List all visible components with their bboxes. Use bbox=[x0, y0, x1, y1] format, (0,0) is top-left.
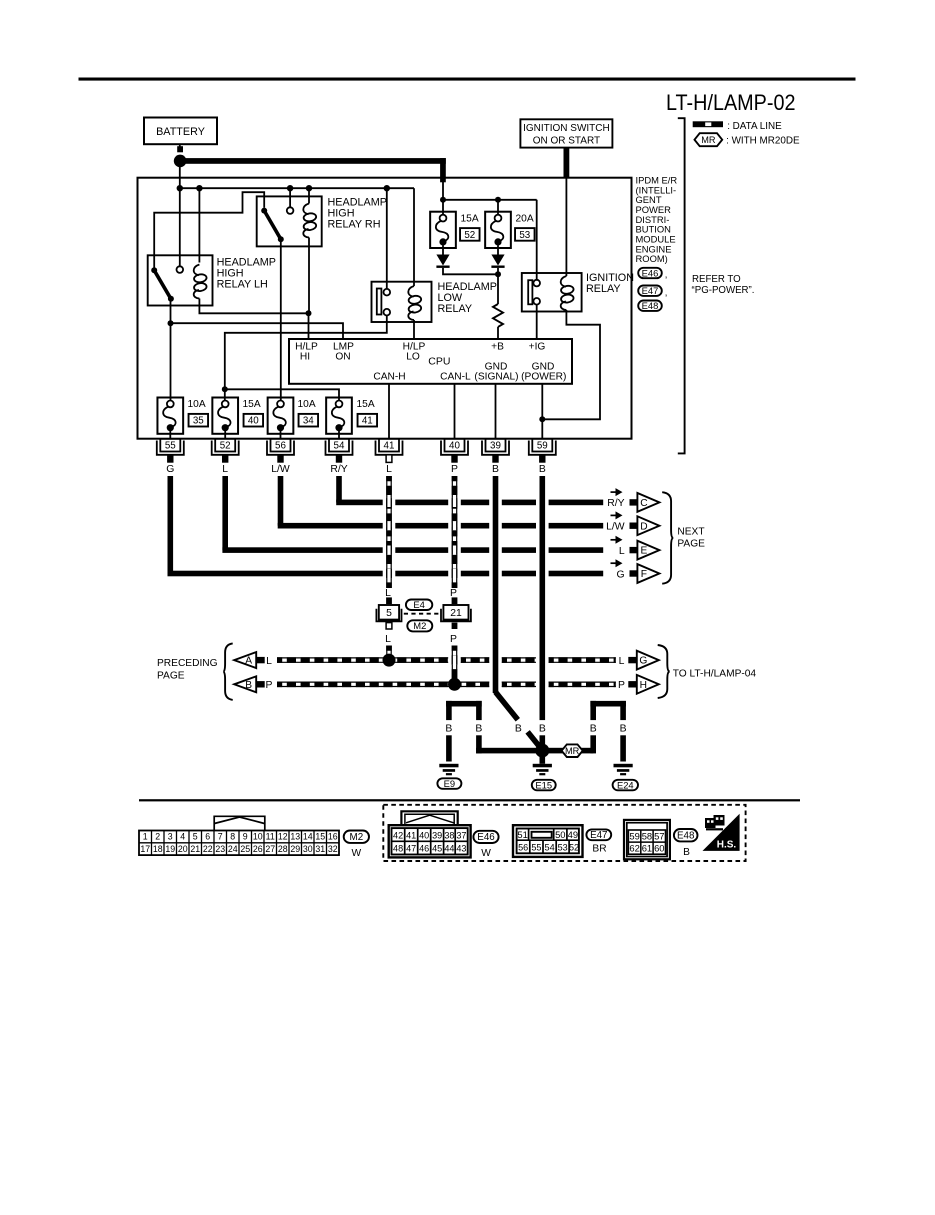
row B junction dot bbox=[448, 678, 461, 691]
thick wire R/Y to arrow C bbox=[336, 476, 603, 505]
svg-text:57: 57 bbox=[654, 830, 664, 841]
relay RH pivot dot bbox=[261, 208, 267, 214]
ignition relay bottom contact bbox=[533, 298, 540, 305]
svg-text:20A: 20A bbox=[516, 214, 534, 225]
svg-text:34: 34 bbox=[303, 416, 314, 427]
svg-text:58: 58 bbox=[642, 830, 652, 841]
svg-text:R/Y: R/Y bbox=[607, 498, 624, 509]
svg-text:4: 4 bbox=[180, 832, 185, 842]
wire fuse 52 to diode bbox=[442, 245, 444, 254]
svg-text:R/Y: R/Y bbox=[330, 464, 347, 475]
svg-text:B: B bbox=[475, 724, 482, 735]
pin 59 bbox=[529, 439, 556, 463]
svg-text:3: 3 bbox=[168, 832, 173, 842]
low relay bottom contact bbox=[384, 309, 391, 316]
GND POWER junction dot bbox=[539, 416, 545, 422]
wire to ignition relay contact bbox=[536, 200, 538, 280]
relay RH blade bbox=[264, 211, 281, 240]
svg-text:ON OR START: ON OR START bbox=[533, 136, 600, 147]
headlamp high relay RH box bbox=[257, 196, 322, 246]
svg-text:BATTERY: BATTERY bbox=[156, 126, 205, 138]
E24 oval bbox=[613, 779, 638, 790]
wire CPU CAN-L to pin 40 bbox=[454, 384, 456, 439]
svg-text:59: 59 bbox=[537, 441, 548, 452]
diode junction dot bbox=[495, 271, 501, 277]
svg-text:H/LP: H/LP bbox=[295, 341, 318, 352]
stub after A bbox=[256, 657, 265, 663]
svg-text:41: 41 bbox=[384, 441, 395, 452]
stub before G bbox=[628, 657, 637, 663]
svg-text:49: 49 bbox=[568, 829, 578, 840]
resistor bbox=[493, 304, 503, 327]
headlamp high relay LH box bbox=[148, 255, 213, 305]
pin 41 bbox=[376, 439, 403, 463]
wire relay LH output to fuse 35 bbox=[170, 299, 172, 401]
svg-text:54: 54 bbox=[334, 441, 345, 452]
wire fuse 53 to diode bbox=[497, 245, 499, 254]
E9 ground loop wire bbox=[446, 701, 482, 762]
preceding page brace bbox=[223, 643, 233, 700]
pin 55 bbox=[157, 439, 184, 463]
relay LH pivot dot bbox=[151, 267, 157, 273]
svg-text:28: 28 bbox=[278, 844, 288, 854]
svg-text:B: B bbox=[539, 464, 546, 475]
svg-text:MR: MR bbox=[701, 135, 716, 145]
wire CPU GND POWER to pin 59 bbox=[541, 384, 543, 439]
arrow triangle F bbox=[637, 564, 659, 583]
svg-text:HI: HI bbox=[300, 352, 310, 363]
stub above connector 21 bbox=[452, 597, 458, 604]
svg-text:51: 51 bbox=[517, 829, 527, 840]
diode 52 bbox=[436, 255, 449, 268]
svg-text:1: 1 bbox=[143, 832, 148, 842]
svg-text:C: C bbox=[640, 498, 647, 509]
B wire from pin 59 bbox=[540, 476, 546, 720]
top rule bbox=[79, 78, 856, 81]
svg-text:LT-H/LAMP-02: LT-H/LAMP-02 bbox=[666, 90, 796, 115]
preceding page text bbox=[157, 658, 218, 681]
E48 connector drawing bbox=[624, 820, 670, 859]
svg-text:E47: E47 bbox=[590, 830, 607, 841]
data line row A bbox=[277, 658, 616, 662]
arrow D row decorations bbox=[606, 511, 638, 532]
stub above connector 5 bbox=[386, 597, 392, 604]
fuse bus junction dot bbox=[222, 386, 228, 392]
svg-text:41: 41 bbox=[362, 416, 373, 427]
svg-text:M2: M2 bbox=[350, 832, 364, 843]
next page brace bbox=[662, 492, 673, 584]
relay LH output dot bbox=[168, 296, 174, 302]
thick wire G to arrow F bbox=[168, 476, 604, 576]
svg-text:GND: GND bbox=[532, 361, 555, 372]
ground bus wire bbox=[476, 748, 593, 754]
svg-text:52: 52 bbox=[464, 230, 475, 241]
svg-text:53: 53 bbox=[558, 842, 568, 852]
connector ref E4 bbox=[406, 599, 432, 610]
svg-text:,: , bbox=[665, 269, 668, 280]
svg-text:E15: E15 bbox=[535, 779, 552, 790]
relay LH label bbox=[217, 257, 276, 291]
svg-text:L: L bbox=[266, 656, 272, 667]
svg-text:54: 54 bbox=[545, 842, 555, 852]
svg-text:11: 11 bbox=[266, 832, 275, 842]
svg-text:E9: E9 bbox=[444, 778, 455, 789]
battery junction dot bbox=[174, 155, 187, 168]
wire junction to E15 ground bbox=[540, 751, 546, 764]
svg-text:6: 6 bbox=[205, 832, 210, 842]
svg-text:5: 5 bbox=[386, 608, 392, 619]
svg-text:30: 30 bbox=[303, 844, 313, 854]
wire low relay output to fuse bus bbox=[225, 316, 387, 390]
svg-text:B: B bbox=[515, 724, 522, 735]
MR badge ground bbox=[562, 744, 583, 757]
svg-text:52: 52 bbox=[220, 441, 231, 452]
svg-text:: DATA LINE: : DATA LINE bbox=[727, 121, 782, 132]
pin 40 bbox=[441, 439, 468, 463]
wire bus to relay LH coil bbox=[198, 188, 200, 262]
svg-text:GND: GND bbox=[485, 361, 508, 372]
wire CPU GND SIGNAL to pin 39 bbox=[495, 384, 497, 439]
svg-text:H/LP: H/LP bbox=[403, 341, 426, 352]
CPU pin labels bbox=[295, 341, 566, 382]
wires fuses to pins bbox=[169, 431, 171, 439]
svg-text:RELAY LH: RELAY LH bbox=[217, 279, 268, 291]
svg-text:REFER TO: REFER TO bbox=[692, 274, 741, 285]
thick wire L/W to arrow D bbox=[278, 476, 603, 529]
svg-text:PAGE: PAGE bbox=[157, 670, 185, 681]
svg-text:40: 40 bbox=[248, 416, 259, 427]
wire CPU CAN-H to pin 41 bbox=[388, 384, 390, 439]
svg-text:18: 18 bbox=[153, 844, 163, 854]
ground symbol E24 bbox=[614, 764, 633, 776]
H.S. badge bbox=[703, 814, 740, 851]
svg-text:CPU: CPU bbox=[428, 355, 450, 367]
svg-text:42: 42 bbox=[393, 830, 403, 840]
svg-text:P: P bbox=[451, 464, 458, 475]
pin 54 bbox=[326, 439, 353, 463]
svg-text:20: 20 bbox=[178, 844, 188, 854]
inline connector pin 21 bbox=[441, 605, 471, 621]
triangle A bbox=[234, 652, 256, 668]
ground junction dot bbox=[535, 744, 549, 758]
wire diode junction down bbox=[497, 268, 499, 304]
ignition relay label bbox=[586, 272, 634, 295]
svg-text:LMP: LMP bbox=[333, 341, 354, 352]
arrow triangle C bbox=[637, 493, 659, 512]
IPDM E/R module box bbox=[138, 178, 632, 439]
pin 39 bbox=[482, 439, 509, 463]
fuse 15A 40 bbox=[212, 398, 238, 434]
wire resistor to CPU +B bbox=[497, 327, 499, 339]
wire color labels bbox=[166, 464, 546, 475]
svg-text:7: 7 bbox=[218, 832, 223, 842]
E48 oval bbox=[674, 829, 698, 842]
svg-text:E46: E46 bbox=[642, 267, 659, 278]
svg-text:50: 50 bbox=[555, 829, 565, 840]
stub after B bbox=[256, 681, 265, 687]
svg-text:26: 26 bbox=[253, 844, 263, 854]
low relay coil bbox=[408, 286, 422, 320]
triangle H bbox=[637, 675, 659, 694]
B wire from pin 39 bbox=[493, 476, 499, 693]
relay LH fixed contact bbox=[177, 266, 184, 273]
svg-text:P: P bbox=[450, 634, 457, 645]
wire fuse link 52-53 bbox=[443, 199, 537, 201]
svg-text:38: 38 bbox=[444, 830, 454, 840]
connector link dashes bbox=[404, 613, 441, 615]
battery box bbox=[144, 118, 217, 145]
relay LH coil bbox=[194, 265, 208, 299]
svg-text:“PG-POWER”.: “PG-POWER”. bbox=[692, 285, 755, 296]
svg-text:L: L bbox=[386, 464, 392, 475]
ignition relay coil bbox=[561, 276, 575, 310]
svg-text:31: 31 bbox=[315, 844, 325, 854]
triangle B bbox=[234, 676, 256, 692]
CPU box bbox=[289, 339, 572, 384]
svg-text:+B: +B bbox=[491, 341, 504, 352]
svg-text:B: B bbox=[492, 464, 499, 475]
wire diode 52 to +B net bbox=[443, 268, 498, 274]
battery feed dashes bbox=[177, 146, 183, 152]
svg-text:37: 37 bbox=[456, 830, 466, 840]
fuse 15A 41 bbox=[326, 398, 352, 434]
arrow E row decorations bbox=[611, 536, 639, 557]
svg-text:23: 23 bbox=[215, 844, 225, 854]
junction dot LMP ON tap bbox=[168, 320, 174, 326]
svg-text:5: 5 bbox=[193, 832, 198, 842]
svg-text:: WITH MR20DE: : WITH MR20DE bbox=[726, 135, 800, 146]
svg-text:25: 25 bbox=[240, 844, 250, 854]
wire relay RH output to fuse 34 bbox=[280, 239, 282, 400]
low relay top contact bbox=[384, 289, 391, 296]
svg-text:53: 53 bbox=[519, 230, 530, 241]
thick ignition switch wire bbox=[564, 148, 570, 179]
svg-text:47: 47 bbox=[406, 844, 416, 854]
svg-text:61: 61 bbox=[642, 843, 652, 854]
E9 oval bbox=[437, 778, 461, 789]
svg-text:29: 29 bbox=[290, 844, 300, 854]
fuse top junction dot 53 bbox=[495, 197, 501, 203]
fuse 10A 35 bbox=[157, 398, 183, 434]
wire ignition relay coil to GND POWER net bbox=[542, 310, 600, 419]
E24 ground loop wire bbox=[590, 701, 626, 762]
fuse 20A 53 bbox=[485, 212, 511, 248]
svg-text:44: 44 bbox=[444, 844, 454, 854]
svg-text:E46: E46 bbox=[477, 832, 495, 843]
svg-text:10A: 10A bbox=[298, 399, 316, 410]
wire bus to low relay contact bbox=[386, 188, 388, 289]
headlamp low relay box bbox=[372, 282, 432, 322]
ground symbol E9 bbox=[439, 764, 458, 776]
svg-text:BR: BR bbox=[592, 844, 606, 855]
B wire labels ground section bbox=[445, 724, 626, 735]
arrow F row decorations bbox=[611, 559, 639, 580]
data line P from pin 40 bbox=[451, 476, 453, 588]
svg-text:21: 21 bbox=[190, 844, 200, 854]
svg-text:8: 8 bbox=[230, 832, 235, 842]
svg-text:43: 43 bbox=[456, 844, 466, 854]
svg-text:10: 10 bbox=[253, 832, 263, 842]
wire relay RH coil down bbox=[308, 238, 310, 314]
inline connector pin 5 bbox=[376, 605, 401, 621]
wire to fuse 53 bbox=[497, 200, 499, 215]
svg-text:41: 41 bbox=[406, 830, 416, 840]
fuse top junction dot 52 bbox=[440, 197, 446, 203]
svg-text:10A: 10A bbox=[188, 399, 206, 410]
data line row B bbox=[277, 682, 616, 686]
wire bus to relay LH contact bbox=[179, 188, 181, 266]
diode 53 bbox=[491, 255, 504, 268]
svg-text:40: 40 bbox=[419, 830, 429, 840]
fuse 10A 34 bbox=[268, 398, 294, 434]
fuse 15A 52 bbox=[430, 212, 456, 248]
low relay label bbox=[438, 281, 497, 315]
ignition relay armature bar bbox=[528, 280, 532, 304]
svg-text:P: P bbox=[618, 680, 625, 691]
wire bus to relay RH contact bbox=[289, 188, 291, 207]
svg-text:B: B bbox=[539, 724, 546, 735]
svg-text:12: 12 bbox=[278, 832, 288, 842]
data line L to row A bbox=[386, 646, 388, 658]
svg-text:RELAY RH: RELAY RH bbox=[328, 219, 381, 231]
coil junction dot bbox=[306, 310, 312, 316]
svg-text:60: 60 bbox=[654, 843, 664, 854]
svg-text:H: H bbox=[640, 680, 647, 691]
wire battery thick to fuse 52 bbox=[442, 182, 444, 215]
svg-text:24: 24 bbox=[228, 844, 238, 854]
svg-text:E48: E48 bbox=[642, 300, 659, 311]
low relay armature bar bbox=[377, 289, 382, 315]
battery bus wire bbox=[179, 144, 181, 150]
svg-text:E24: E24 bbox=[617, 779, 634, 790]
svg-text:A: A bbox=[245, 656, 252, 667]
legend MR badge bbox=[695, 133, 723, 146]
wire bus to relay RH coil bbox=[308, 188, 310, 203]
E47 oval bbox=[586, 829, 611, 841]
svg-text:14: 14 bbox=[303, 832, 313, 842]
IPDM label text bbox=[636, 174, 678, 264]
wire coils to CPU H/LP HI bbox=[308, 313, 310, 339]
svg-text:W: W bbox=[351, 848, 361, 859]
svg-text:+IG: +IG bbox=[529, 341, 546, 352]
svg-text:15A: 15A bbox=[243, 399, 261, 410]
bottom separator line bbox=[139, 799, 800, 801]
stub below connector 21 bbox=[452, 623, 458, 629]
svg-text:15: 15 bbox=[315, 832, 325, 842]
svg-text:CAN-L: CAN-L bbox=[440, 372, 471, 383]
svg-text:E4: E4 bbox=[413, 599, 424, 610]
svg-text:E47: E47 bbox=[642, 285, 659, 296]
svg-text:52: 52 bbox=[569, 842, 579, 852]
data line crossing windows bbox=[387, 498, 457, 665]
M2 connector roof bbox=[214, 816, 265, 830]
svg-text:40: 40 bbox=[449, 441, 460, 452]
connector ref M2 bbox=[407, 620, 432, 631]
svg-text:22: 22 bbox=[203, 844, 213, 854]
svg-text:ROOM): ROOM) bbox=[636, 253, 668, 264]
svg-text:13: 13 bbox=[290, 832, 300, 842]
svg-text:16: 16 bbox=[328, 832, 338, 842]
svg-text:LO: LO bbox=[406, 352, 420, 363]
ignition relay top contact bbox=[533, 280, 540, 287]
svg-text:E: E bbox=[641, 546, 648, 557]
E47 connector drawing bbox=[513, 825, 583, 857]
svg-text:E48: E48 bbox=[677, 831, 695, 842]
svg-text:TO LT-H/LAMP-04: TO LT-H/LAMP-04 bbox=[673, 668, 757, 679]
svg-text:,: , bbox=[665, 286, 668, 297]
svg-text:2: 2 bbox=[155, 832, 160, 842]
svg-text:19: 19 bbox=[165, 844, 175, 854]
relay RH output dot bbox=[278, 236, 284, 242]
svg-text:L: L bbox=[619, 656, 625, 667]
wire low relay coil to CPU H/LP LO bbox=[413, 320, 415, 339]
svg-text:MR: MR bbox=[565, 746, 580, 756]
harness detail dashed box bbox=[383, 805, 745, 861]
svg-text:27: 27 bbox=[265, 844, 275, 854]
svg-text:G: G bbox=[166, 464, 174, 475]
stub below connector 5 bbox=[386, 623, 392, 629]
svg-text:L: L bbox=[222, 464, 228, 475]
svg-text:48: 48 bbox=[393, 844, 403, 854]
triangle G bbox=[637, 651, 659, 670]
relay LH blade bbox=[154, 270, 171, 299]
svg-text:B: B bbox=[445, 724, 452, 735]
svg-text:39: 39 bbox=[490, 441, 501, 452]
data line L from pin 41 bbox=[386, 476, 388, 588]
wire ignition relay to CPU +IG bbox=[536, 305, 538, 339]
svg-text:56: 56 bbox=[275, 441, 286, 452]
row A junction dot bbox=[383, 654, 396, 667]
arrow triangle E bbox=[637, 541, 659, 560]
svg-text:32: 32 bbox=[328, 844, 338, 854]
svg-text:G: G bbox=[639, 656, 647, 667]
svg-text:B: B bbox=[245, 680, 252, 691]
svg-text:PRECEDING: PRECEDING bbox=[157, 658, 218, 669]
to LT-H/LAMP-04 brace bbox=[658, 645, 670, 698]
pin 56 bbox=[267, 439, 294, 463]
wire to fuse 40 bbox=[224, 389, 226, 400]
svg-text:(SIGNAL): (SIGNAL) bbox=[474, 372, 518, 383]
next page text bbox=[677, 526, 705, 549]
B wire diagonal to ground junction bbox=[496, 692, 518, 720]
arrow triangle D bbox=[637, 516, 659, 535]
svg-text:46: 46 bbox=[419, 844, 429, 854]
svg-text:45: 45 bbox=[432, 844, 442, 854]
arrow C row decorations bbox=[607, 488, 638, 509]
svg-text:IGNITION SWITCH: IGNITION SWITCH bbox=[523, 123, 610, 134]
wire to CPU LMP ON bbox=[171, 323, 344, 339]
relay RH fixed contact bbox=[287, 207, 294, 214]
bus junction dots bbox=[177, 185, 183, 191]
ground symbol E15 bbox=[533, 764, 552, 776]
svg-text:RELAY: RELAY bbox=[586, 283, 621, 295]
M2 connector grid bbox=[139, 831, 339, 856]
connector ref E46 bbox=[638, 267, 662, 278]
svg-text:56: 56 bbox=[518, 842, 528, 852]
svg-text:62: 62 bbox=[629, 843, 639, 854]
connector ref E48 bbox=[638, 300, 662, 311]
svg-text:B: B bbox=[590, 724, 597, 735]
svg-text:55: 55 bbox=[531, 842, 541, 852]
ignition relay box bbox=[522, 273, 582, 312]
svg-text:NEXT: NEXT bbox=[677, 526, 704, 537]
svg-text:ON: ON bbox=[335, 352, 350, 363]
svg-text:21: 21 bbox=[450, 608, 462, 619]
svg-text:15A: 15A bbox=[461, 214, 479, 225]
svg-text:M2: M2 bbox=[413, 620, 426, 631]
svg-text:B: B bbox=[683, 847, 690, 858]
svg-text:G: G bbox=[617, 569, 625, 580]
